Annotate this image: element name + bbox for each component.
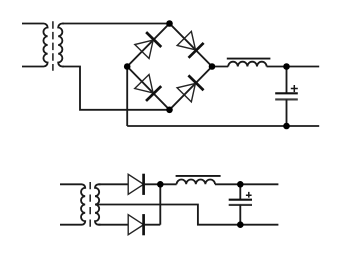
junction dot node B: [237, 181, 244, 188]
junction dot C1 top: [283, 63, 290, 70]
wire L1 to output node: [267, 66, 287, 68]
diode D6 cathode bar: [142, 214, 145, 235]
capacitor C1 top plate: [275, 92, 298, 94]
capacitor C1 polarity plus sign: [291, 85, 298, 92]
wire node A to inductor L2: [160, 183, 176, 185]
wire capacitor C1 top lead: [286, 67, 288, 94]
wire capacitor C2 bottom lead: [239, 205, 241, 225]
wire T1 secondary top to bridge top node: [62, 23, 169, 25]
wire D6 to node A vertical: [144, 224, 161, 226]
wire node B to right end (V+): [240, 183, 278, 185]
diode D5 triangle: [128, 174, 143, 194]
junction dot bridge left node: [124, 63, 131, 70]
capacitor C2 polarity plus sign: [246, 192, 252, 198]
junction dot C1 bottom: [283, 123, 290, 130]
bridge diode D3 (left node to bottom node): [135, 75, 161, 101]
wire T2 center tap: [95, 205, 240, 225]
bridge diode D1 (left node to top node): [135, 32, 161, 58]
wire bridge left node down to bottom rail: [126, 67, 128, 127]
wire T2 secondary top to diode D5: [99, 183, 129, 185]
inductor L1 coil: [228, 62, 266, 67]
transformer T2 core: [89, 182, 91, 227]
junction dot bridge right node: [209, 63, 216, 70]
wire L2 to node B: [215, 183, 240, 185]
wire node A down to D6 output: [159, 184, 161, 224]
junction dot node A: [157, 181, 164, 188]
diode D5 cathode bar: [142, 174, 145, 195]
bridge diode D4 (bottom node to right node): [177, 75, 203, 101]
wire T1 secondary bottom to bridge bottom node: [62, 67, 169, 110]
wire output node to right end (V+): [287, 66, 320, 68]
junction dot bridge top node: [166, 20, 173, 27]
capacitor C2 bottom plate: [229, 204, 252, 206]
inductor L1 core bar: [227, 58, 271, 60]
wire D5 to node A: [144, 183, 161, 185]
capacitor C2 top plate: [229, 199, 252, 201]
diode D6 triangle: [128, 215, 143, 235]
transformer T1 primary winding: [22, 24, 48, 67]
wire capacitor C1 bottom lead: [286, 99, 288, 126]
inductor L2 core bar: [176, 175, 221, 177]
wire bottom rail of top circuit: [127, 125, 319, 127]
transformer T1 secondary winding: [58, 24, 64, 67]
wire bridge right node to inductor L1: [212, 66, 228, 68]
transformer T2 secondary winding (center-tapped): [95, 184, 101, 224]
junction dot bridge bottom node: [166, 107, 173, 114]
transformer T1 core: [52, 21, 54, 71]
junction dot C2 bottom: [237, 221, 244, 228]
capacitor C1 bottom plate: [275, 98, 298, 100]
wire T2 secondary bottom to diode D6: [99, 224, 129, 226]
transformer T2 primary winding: [60, 184, 85, 224]
inductor L2 coil: [177, 180, 215, 185]
wire bottom rail right end: [240, 224, 278, 226]
bridge diode D2 (top node to right node): [177, 31, 203, 57]
wire capacitor C2 top lead: [239, 184, 241, 199]
bridge edge wires: [127, 24, 212, 110]
